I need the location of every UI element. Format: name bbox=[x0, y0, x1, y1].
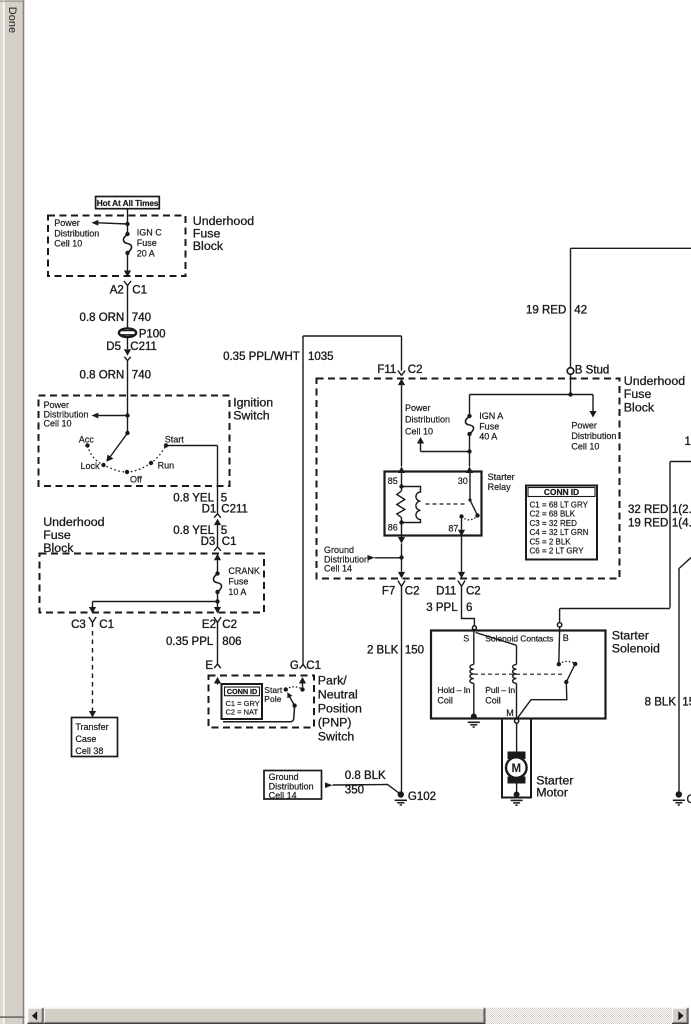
svg-text:F7: F7 bbox=[382, 585, 395, 597]
svg-text:Fuse: Fuse bbox=[137, 238, 157, 248]
svg-text:Distribution: Distribution bbox=[54, 228, 99, 238]
svg-text:Underhood: Underhood bbox=[43, 515, 104, 529]
svg-text:Run: Run bbox=[158, 460, 175, 470]
svg-text:Switch: Switch bbox=[233, 408, 270, 422]
svg-text:Distribution: Distribution bbox=[405, 415, 450, 425]
svg-text:Block: Block bbox=[193, 239, 224, 253]
svg-text:Fuse: Fuse bbox=[479, 421, 499, 431]
svg-text:M: M bbox=[506, 708, 514, 718]
svg-text:Cell 10: Cell 10 bbox=[571, 441, 599, 451]
svg-text:S: S bbox=[463, 634, 469, 644]
svg-text:Ignition: Ignition bbox=[233, 395, 273, 409]
svg-text:C3: C3 bbox=[71, 619, 86, 631]
svg-text:15: 15 bbox=[682, 696, 691, 708]
svg-text:Pull – In: Pull – In bbox=[485, 685, 515, 695]
svg-text:F11: F11 bbox=[377, 364, 396, 376]
svg-text:Solenoid: Solenoid bbox=[612, 641, 660, 655]
svg-text:Power: Power bbox=[54, 218, 80, 228]
svg-text:86: 86 bbox=[388, 523, 398, 533]
svg-text:Cell 38: Cell 38 bbox=[75, 746, 103, 756]
svg-text:30: 30 bbox=[458, 476, 468, 486]
svg-text:40 A: 40 A bbox=[479, 431, 497, 441]
svg-text:C1: C1 bbox=[306, 660, 321, 672]
svg-text:Relay: Relay bbox=[488, 482, 512, 492]
svg-text:Position: Position bbox=[318, 701, 362, 715]
svg-text:Off: Off bbox=[130, 475, 142, 485]
svg-text:Pole: Pole bbox=[264, 694, 281, 704]
svg-text:Switch: Switch bbox=[318, 729, 355, 743]
svg-text:C1: C1 bbox=[99, 619, 114, 631]
svg-text:Underhood: Underhood bbox=[624, 374, 685, 388]
svg-text:Park/: Park/ bbox=[318, 673, 347, 687]
svg-text:0.8 ORN: 0.8 ORN bbox=[80, 369, 125, 381]
svg-text:1(2.2: 1(2.2 bbox=[672, 504, 691, 516]
svg-text:IGN C: IGN C bbox=[137, 228, 163, 238]
svg-text:19 RED: 19 RED bbox=[628, 517, 668, 529]
svg-text:Fuse: Fuse bbox=[228, 576, 248, 586]
svg-text:M: M bbox=[512, 763, 522, 775]
svg-text:85: 85 bbox=[388, 476, 398, 486]
svg-text:C2: C2 bbox=[405, 585, 420, 597]
svg-text:C5 = 2 BLK: C5 = 2 BLK bbox=[530, 537, 572, 546]
svg-text:0.8 BLK: 0.8 BLK bbox=[345, 770, 386, 782]
svg-text:Starter: Starter bbox=[612, 628, 649, 642]
svg-text:Power: Power bbox=[571, 421, 597, 431]
svg-text:19: 19 bbox=[685, 436, 691, 448]
svg-text:3 PPL: 3 PPL bbox=[426, 602, 458, 614]
svg-text:1(4.3: 1(4.3 bbox=[672, 517, 691, 529]
svg-text:2 BLK: 2 BLK bbox=[367, 644, 399, 656]
svg-text:Hold – In: Hold – In bbox=[437, 685, 470, 695]
svg-text:C6 = 2 LT GRY: C6 = 2 LT GRY bbox=[530, 547, 585, 556]
svg-text:Hot At All Times: Hot At All Times bbox=[97, 198, 159, 208]
svg-text:C2: C2 bbox=[222, 619, 237, 631]
svg-text:20 A: 20 A bbox=[137, 249, 155, 259]
svg-text:CONN ID: CONN ID bbox=[227, 687, 258, 696]
svg-text:8 BLK: 8 BLK bbox=[645, 696, 677, 708]
svg-text:806: 806 bbox=[222, 636, 241, 648]
svg-text:CONN ID: CONN ID bbox=[544, 487, 579, 497]
svg-text:87: 87 bbox=[448, 524, 458, 534]
svg-text:740: 740 bbox=[132, 312, 151, 324]
svg-text:C1: C1 bbox=[132, 285, 147, 297]
svg-text:42: 42 bbox=[574, 304, 587, 316]
svg-text:Neutral: Neutral bbox=[318, 687, 358, 701]
svg-text:IGN A: IGN A bbox=[479, 411, 503, 421]
svg-text:D11: D11 bbox=[436, 585, 456, 597]
svg-text:G1: G1 bbox=[687, 794, 691, 806]
svg-text:D5: D5 bbox=[106, 341, 121, 353]
svg-text:Acc: Acc bbox=[79, 435, 95, 445]
svg-text:Fuse: Fuse bbox=[43, 528, 71, 542]
svg-text:Cell 10: Cell 10 bbox=[405, 426, 433, 436]
svg-text:Block: Block bbox=[624, 401, 655, 415]
svg-text:B: B bbox=[563, 633, 569, 643]
svg-text:B Stud: B Stud bbox=[575, 364, 610, 376]
svg-text:Motor: Motor bbox=[536, 785, 568, 799]
svg-text:CRANK: CRANK bbox=[228, 566, 260, 576]
svg-text:Fuse: Fuse bbox=[624, 387, 652, 401]
svg-text:0.8 ORN: 0.8 ORN bbox=[80, 312, 125, 324]
svg-text:Cell 10: Cell 10 bbox=[44, 418, 72, 428]
svg-text:Cell 14: Cell 14 bbox=[269, 790, 297, 800]
svg-text:C1 = 68 LT GRY: C1 = 68 LT GRY bbox=[530, 501, 589, 510]
svg-text:Start: Start bbox=[165, 435, 185, 445]
svg-text:G102: G102 bbox=[408, 791, 436, 803]
svg-text:E2: E2 bbox=[202, 619, 216, 631]
svg-text:C2 = NAT: C2 = NAT bbox=[226, 707, 259, 716]
svg-text:C2 = 68 BLK: C2 = 68 BLK bbox=[530, 510, 576, 519]
svg-text:Lock: Lock bbox=[80, 461, 100, 471]
svg-text:32 RED: 32 RED bbox=[628, 504, 668, 516]
svg-text:Done: Done bbox=[6, 7, 18, 33]
svg-text:10 A: 10 A bbox=[228, 587, 246, 597]
svg-text:E: E bbox=[205, 660, 213, 672]
svg-text:C3 = 32 RED: C3 = 32 RED bbox=[530, 519, 578, 528]
svg-text:D3: D3 bbox=[201, 536, 216, 548]
svg-text:C2: C2 bbox=[408, 364, 423, 376]
svg-text:Case: Case bbox=[75, 734, 96, 744]
svg-text:G: G bbox=[290, 660, 299, 672]
svg-text:D1: D1 bbox=[202, 503, 217, 515]
svg-text:C211: C211 bbox=[221, 503, 248, 515]
svg-text:6: 6 bbox=[466, 602, 472, 614]
svg-text:Block: Block bbox=[43, 541, 74, 555]
svg-text:Starter: Starter bbox=[488, 472, 515, 482]
svg-text:Cell 14: Cell 14 bbox=[324, 564, 352, 574]
svg-text:(PNP): (PNP) bbox=[318, 715, 352, 729]
svg-text:C2: C2 bbox=[466, 585, 481, 597]
svg-text:350: 350 bbox=[345, 785, 364, 797]
svg-text:Coil: Coil bbox=[485, 696, 501, 706]
svg-text:0.35 PPL/WHT: 0.35 PPL/WHT bbox=[223, 351, 300, 363]
svg-text:C211: C211 bbox=[130, 341, 157, 353]
svg-text:P100: P100 bbox=[139, 328, 166, 340]
svg-text:Transfer: Transfer bbox=[75, 722, 108, 732]
svg-text:C1: C1 bbox=[222, 536, 237, 548]
svg-text:0.35 PPL: 0.35 PPL bbox=[166, 636, 214, 648]
svg-text:19 RED: 19 RED bbox=[526, 304, 566, 316]
svg-text:A2: A2 bbox=[110, 285, 124, 297]
svg-text:Cell 10: Cell 10 bbox=[54, 239, 82, 249]
svg-text:1035: 1035 bbox=[308, 351, 334, 363]
svg-text:740: 740 bbox=[132, 369, 151, 381]
svg-text:Distribution: Distribution bbox=[571, 431, 616, 441]
svg-text:150: 150 bbox=[405, 644, 424, 656]
svg-text:Coil: Coil bbox=[437, 696, 453, 706]
svg-text:Ground: Ground bbox=[324, 545, 354, 555]
svg-text:Power: Power bbox=[405, 403, 431, 413]
svg-text:C4 = 32 LT GRN: C4 = 32 LT GRN bbox=[530, 528, 589, 537]
